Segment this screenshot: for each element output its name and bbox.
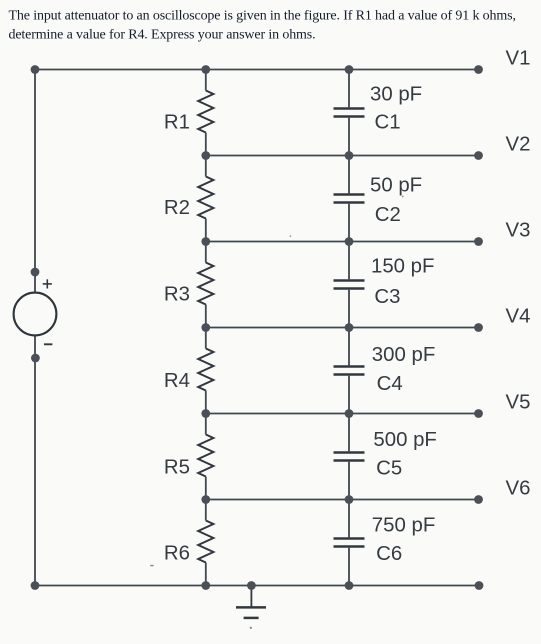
dash speck left of R6 (scan artifact) [150,565,153,567]
wire rail V4 net [206,327,479,329]
speck above C2 (scan artifact) [402,196,404,198]
svg-text:500 pF: 500 pF [373,429,436,451]
wire rail V2 net [206,155,479,157]
node V3 at resistor column [201,237,210,246]
resistor R3 [198,242,213,328]
node V3 terminal [474,237,483,246]
ground node at ground symbol [247,581,256,590]
resistor R2 [198,156,213,242]
node V2 at resistor column [201,151,210,160]
node V1 at C1 top [345,65,354,74]
wire rail V3 net [206,241,479,243]
capacitor C6 [334,500,365,586]
capacitor C5 [334,414,365,500]
wire rail V6 net [206,499,479,501]
node V4 at resistor column [201,323,210,332]
svg-text:V4: V4 [506,306,531,328]
node V5 at resistor column [201,409,210,418]
node V6 at capacitor column [345,495,354,504]
svg-text:R6: R6 [164,543,190,565]
svg-text:R2: R2 [164,197,190,219]
wire left vertical from top rail to source + terminal [34,70,36,293]
wire left vertical from source - terminal to bottom rail [34,335,36,585]
node V6 terminal [474,495,483,504]
resistor R1 [198,70,213,156]
svg-text:V5: V5 [506,392,531,414]
capacitor C1 [334,70,365,156]
capacitor C3 [334,242,365,328]
svg-text:R4: R4 [164,370,190,392]
resistor R5 [198,414,213,500]
svg-text:V6: V6 [506,478,531,500]
node V2 at capacitor column [345,151,354,160]
svg-text:C1: C1 [375,112,401,134]
resistor R6 [198,500,213,586]
ground node at C6 bottom [345,581,354,590]
source + polarity mark [43,279,52,288]
source - terminal junction [31,354,40,363]
svg-text:R1: R1 [164,112,190,134]
svg-text:The input attenuator to an osc: The input attenuator to an oscilloscope … [9,8,516,23]
wire top rail (V1 net) [35,69,479,71]
node V2 terminal [474,151,483,160]
svg-text:V2: V2 [506,134,531,156]
svg-text:C5: C5 [376,458,402,480]
resistor R4 [198,328,213,414]
svg-text:C2: C2 [375,204,401,226]
wire bottom ground rail [35,585,479,587]
node V4 terminal [474,323,483,332]
svg-text:150 pF: 150 pF [371,256,434,278]
node V6 at resistor column [201,495,210,504]
node V5 at capacitor column [345,409,354,418]
svg-text:V1: V1 [506,48,531,70]
node V1 at R1 top [201,65,210,74]
svg-text:C3: C3 [374,286,400,308]
svg-text:C6: C6 [376,543,402,565]
svg-text:50 pF: 50 pF [370,175,422,197]
source - polarity mark [44,343,52,345]
svg-text:R5: R5 [164,457,190,479]
ground symbol [236,586,266,618]
capacitor C4 [334,328,365,414]
svg-text:V3: V3 [506,220,531,242]
svg-text:300 pF: 300 pF [372,344,435,366]
node V4 at capacitor column [345,323,354,332]
svg-text:determine a value for R4. Expr: determine a value for R4. Express your a… [9,28,316,43]
wire rail V5 net [206,413,479,415]
source + terminal junction [31,268,40,277]
junction bottom-left corner [31,581,40,590]
node V3 at capacitor column [345,237,354,246]
node V1 terminal [474,65,483,74]
junction top-left corner [31,65,40,74]
voltage source VS circle [14,293,57,336]
ground node at R6 bottom [201,581,210,590]
svg-text:30 pF: 30 pF [370,84,422,106]
ground node terminal [475,581,484,590]
node V5 terminal [474,409,483,418]
svg-text:750 pF: 750 pF [372,515,435,537]
capacitor C2 [334,156,365,242]
svg-text:R3: R3 [164,284,190,306]
speck near rail 3 (scan artifact) [290,235,292,237]
speck below ground (scan artifact) [250,627,252,629]
svg-text:C4: C4 [377,373,403,395]
